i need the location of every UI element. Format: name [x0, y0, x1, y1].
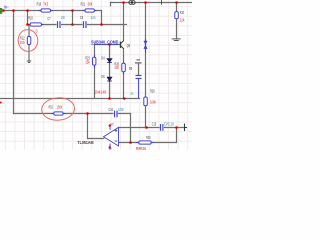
wire stub at x=110.5 [110, 3, 112, 6]
wire rail3 [0, 98, 140, 100]
resistor R30 [175, 12, 179, 19]
ground-cap column bar [135, 62, 142, 64]
wire R30 ground stem [176, 19, 178, 39]
wire R30 top lead [176, 3, 178, 12]
wire opamp top input [119, 127, 185, 129]
svg-text:SUB340_COMD: SUB340_COMD [91, 39, 119, 44]
wire diode column x=109.5 [109, 45, 111, 99]
svg-text:R19: R19 [49, 105, 54, 110]
svg-text:100: 100 [20, 40, 25, 45]
svg-text:C15: C15 [152, 121, 157, 126]
capacitor C7 [57, 21, 62, 28]
wire rail1 top [3, 10, 102, 12]
resistor R29 [136, 141, 154, 144]
svg-text:C7: C7 [47, 16, 51, 21]
svg-text:34n: 34n [91, 15, 96, 20]
wire left vertical column [13, 11, 15, 114]
wire corner x=130.5 down [130, 114, 132, 143]
ground under R12 [27, 61, 31, 63]
svg-text:In-: In- [4, 4, 9, 9]
svg-text:7K3: 7K3 [43, 2, 48, 7]
op-amp U1 [104, 126, 119, 148]
svg-text:C16: C16 [108, 107, 113, 112]
ground-cap column top dash [136, 59, 140, 61]
svg-text:2n: 2n [130, 91, 133, 96]
svg-text:R30: R30 [180, 10, 185, 15]
resistor R19 [52, 112, 66, 115]
svg-text:R28: R28 [150, 88, 155, 93]
svg-text:D4: D4 [101, 56, 105, 61]
capacitor C8 [83, 21, 88, 28]
resistor R12 [27, 37, 31, 45]
svg-text:D6: D6 [101, 74, 105, 79]
capacitor C15 [160, 124, 164, 131]
svg-text:Q9: Q9 [127, 43, 131, 48]
wire net label wire [95, 44, 121, 46]
wire vertical rail1 to rail2 at x=72.5 [72, 11, 74, 25]
svg-text:C8: C8 [80, 15, 84, 20]
resistor R21 [83, 9, 97, 12]
svg-text:R21: R21 [81, 2, 86, 7]
svg-text:100K: 100K [150, 100, 156, 105]
resistor R28 [144, 97, 148, 106]
svg-text:D/C10: D/C10 [164, 121, 174, 126]
wire R12 stem [28, 25, 30, 62]
transistor Q9 [121, 41, 124, 49]
svg-text:VC: VC [111, 121, 114, 126]
svg-text:50k: 50k [88, 2, 93, 7]
wire R23 column x=94.5 [94, 45, 96, 99]
terminal pin right [185, 124, 188, 131]
svg-text:R29: R29 [146, 135, 151, 140]
wire rail2 [28, 24, 127, 26]
wire feedback vertical x=176.5 [176, 128, 178, 143]
wire collector column x=123.5 [123, 3, 125, 41]
svg-text:430: 430 [114, 65, 119, 70]
resistor R23 [93, 55, 96, 68]
svg-text:100K: 100K [57, 105, 63, 110]
wire top supply [111, 2, 193, 4]
capacitor C6 2n plates [136, 76, 142, 79]
capacitor C16 [113, 111, 117, 118]
annotation ellipse around R19 [41, 97, 75, 122]
svg-text:10n: 10n [61, 15, 66, 20]
wire emitter column x=123.5 [123, 49, 125, 99]
resistor R26 [122, 61, 126, 74]
svg-text:15k: 15k [85, 60, 90, 65]
wire tick at x=161.5 [161, 0, 163, 4]
svg-text:R6: R6 [129, 66, 133, 71]
wire opamp output horizontal [88, 138, 104, 140]
wire rail4 [14, 113, 131, 115]
resistor R18 [29, 23, 45, 26]
wire vertical rail1 to rail2 at x=27.5 [27, 11, 29, 25]
wire vertical rail1 corner down at x=101.5 [101, 11, 103, 25]
resistor R16 [39, 9, 54, 12]
diode pair D5 bowtie [144, 39, 147, 53]
svg-text:R16: R16 [37, 2, 42, 7]
annotation ellipse around R12 [17, 29, 39, 53]
svg-text:TL051AM: TL051AM [77, 140, 93, 145]
svg-text:R18: R18 [28, 15, 33, 20]
wire gnd-cap stem upper [138, 63, 140, 76]
svg-text:0: 0 [36, 29, 38, 34]
svg-text:VC: VC [109, 147, 112, 150]
diode D6 [107, 77, 112, 81]
port In- green [0, 8, 3, 14]
wire opamp bottom input [119, 142, 177, 144]
svg-text:22k: 22k [180, 18, 185, 23]
svg-text:100n: 100n [118, 107, 124, 112]
wire gnd-cap stem lower blue [138, 79, 140, 99]
diode D4 [107, 59, 112, 63]
ground under R30 [172, 39, 181, 41]
svg-text:R9R26: R9R26 [136, 146, 147, 150]
connector symbol top circles [129, 1, 135, 5]
wire opamp branch vertical x=87.5 [87, 114, 89, 139]
wire long vertical x=145.5 [145, 3, 147, 128]
junction dots red [0, 1, 178, 149]
svg-text:1N4148: 1N4148 [94, 89, 106, 94]
